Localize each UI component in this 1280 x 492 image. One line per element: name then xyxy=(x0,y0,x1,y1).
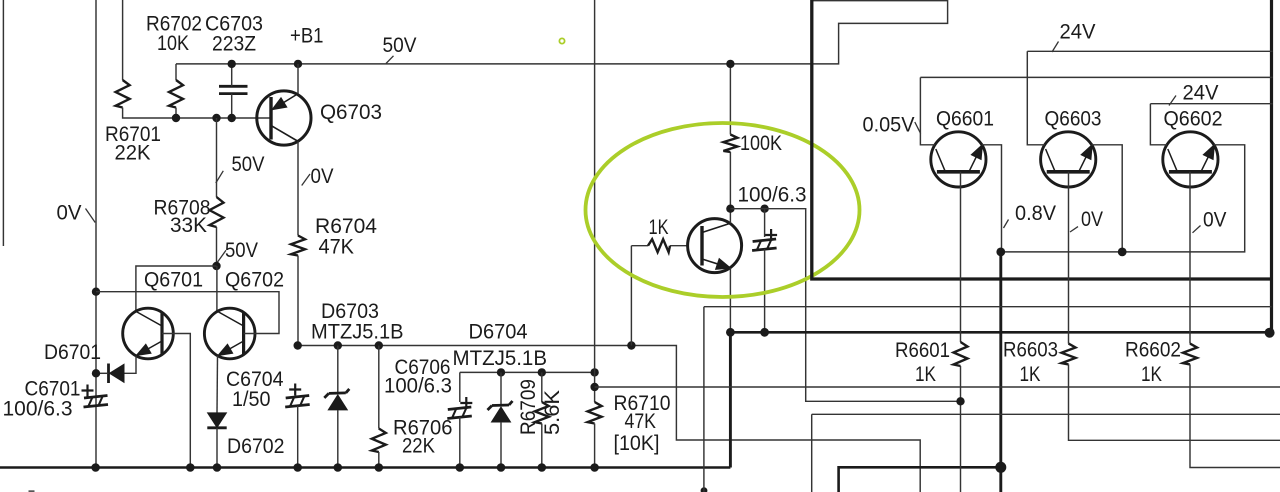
svg-text:R6602: R6602 xyxy=(1125,338,1181,362)
wire: Q6601 emitter down xyxy=(982,145,1002,252)
small green dot xyxy=(559,38,564,43)
wire: Q6701 emitter to D6701 xyxy=(124,356,137,374)
wire: C6704 to bottom bus xyxy=(297,406,299,468)
wire: collector node to R6601 bottom xyxy=(730,209,960,402)
wire: R6710 bottom lead xyxy=(594,424,596,468)
wire: thick emitter rail y=332 xyxy=(730,331,1269,334)
svg-text:0V: 0V xyxy=(311,164,335,188)
wire: R6701 top lead from top edge xyxy=(122,0,124,80)
wire: R6602 out to right edge xyxy=(1190,364,1280,467)
junction xyxy=(627,341,635,349)
wire: R6709 top lead xyxy=(541,372,543,402)
svg-text:0V: 0V xyxy=(1203,208,1227,232)
wire: D6701 cathode to rail xyxy=(96,372,109,374)
wire: Q emitter down to thick rail xyxy=(729,268,731,332)
svg-text:47K: 47K xyxy=(625,409,657,433)
svg-text:0.8V: 0.8V xyxy=(1015,201,1057,225)
wire: +B1 50V rail with staircase to top edge xyxy=(176,1,948,64)
wire: Q6603 base lead xyxy=(1068,172,1070,344)
wire: left input rail x=96 (0V net) xyxy=(95,0,97,468)
junction xyxy=(538,368,546,376)
svg-text:22K: 22K xyxy=(402,434,436,458)
transistor Q6602 xyxy=(1163,132,1218,187)
svg-text:0V: 0V xyxy=(57,201,83,225)
wire: Q6603 collector feed xyxy=(1027,51,1045,145)
wire: cap bottom lead xyxy=(764,249,766,332)
junction xyxy=(760,328,769,337)
wire: thick bottom-right bus xyxy=(839,467,1001,492)
svg-text:22K: 22K xyxy=(115,141,152,165)
junction big dot on thick bus xyxy=(995,462,1006,473)
junction on bottom bus xyxy=(186,463,195,472)
wire: 1K left lead xyxy=(631,245,648,247)
junction on bottom bus xyxy=(293,463,302,472)
wire: C6703 bottom lead xyxy=(231,94,233,118)
wire: Q6703 emitter to +B1 rail xyxy=(297,64,299,94)
wire: Q6601 base lead xyxy=(960,172,962,342)
junction thick rail / right boundary xyxy=(1265,328,1275,338)
junction xyxy=(996,248,1005,257)
svg-text:Q6703: Q6703 xyxy=(320,100,382,124)
wire: thick right boundary xyxy=(1270,0,1273,333)
wire: R6603 out to right edge xyxy=(1069,364,1280,440)
junction xyxy=(228,60,236,68)
wire: Q6702 base from input rail xyxy=(96,292,279,334)
wire: thick vertical from emitter bus to bottom edge xyxy=(999,252,1002,492)
svg-text:Q6601: Q6601 xyxy=(936,107,994,131)
wire: vertical x=704 to bottom edge xyxy=(703,307,705,492)
wire: C6706 to bus xyxy=(459,417,461,468)
svg-text:24V: 24V xyxy=(1060,20,1097,44)
svg-text:+B1: +B1 xyxy=(290,24,324,48)
wire: thick vertical to bottom bus xyxy=(729,332,732,467)
wire: D6703 anode to bus xyxy=(337,410,339,468)
resistor R6710 47K xyxy=(588,402,602,424)
svg-text:1K: 1K xyxy=(1020,362,1042,386)
svg-text:MTZJ5.1B: MTZJ5.1B xyxy=(311,320,404,344)
transistor Q6601 xyxy=(931,132,986,187)
wire: base net of Q6703 at y=117 xyxy=(123,108,271,119)
capacitor C6706 100/6.3 xyxy=(447,397,472,419)
svg-text:1K: 1K xyxy=(915,362,937,386)
junction xyxy=(92,369,100,377)
junction xyxy=(212,262,220,270)
svg-text:MTZJ5.1B: MTZJ5.1B xyxy=(453,346,548,370)
svg-text:47K: 47K xyxy=(319,235,355,259)
wire: Q6703 collector down to R6704 xyxy=(297,142,299,236)
svg-text:50V: 50V xyxy=(225,238,259,262)
svg-text:100/6.3: 100/6.3 xyxy=(3,397,73,421)
svg-text:Q6701: Q6701 xyxy=(144,268,203,292)
junction xyxy=(92,288,100,296)
wire: R6708 bottom lead xyxy=(216,227,218,266)
resistor R6602 1K xyxy=(1183,344,1197,365)
wire: Q6601 collector feed xyxy=(920,77,935,144)
diode D6701 xyxy=(109,364,125,384)
wire: D6703 cathode lead xyxy=(337,346,339,394)
junction on bottom bus xyxy=(213,463,222,472)
junction on bottom bus xyxy=(334,463,343,472)
svg-text:0.05V: 0.05V xyxy=(863,113,916,137)
resistor R6603 1K xyxy=(1062,344,1076,365)
svg-text:5.6K: 5.6K xyxy=(540,389,564,435)
svg-text:1K: 1K xyxy=(1141,362,1163,386)
wire: R6706 top lead xyxy=(378,346,380,429)
junction xyxy=(212,114,220,122)
junction on bottom bus xyxy=(456,463,465,472)
wire: Q6602 collector feed xyxy=(1150,104,1167,145)
cropped mark at bottom edge xyxy=(29,490,35,492)
svg-text:D6701: D6701 xyxy=(44,340,101,364)
wire: R6704 to D6703 node xyxy=(297,256,299,346)
wire: collector net to Q6701 xyxy=(136,266,217,311)
svg-text:D6704: D6704 xyxy=(469,320,528,344)
junction on bottom bus xyxy=(590,463,599,472)
capacitor C6701 100/6.3 xyxy=(82,385,109,408)
svg-text:Q6603: Q6603 xyxy=(1045,107,1102,131)
wire: 1K to Q base xyxy=(670,245,688,247)
wire: 24V rail y=51 xyxy=(1027,50,1272,52)
wire: bottom 0V bus (left) xyxy=(0,466,730,469)
transistor Q6702 xyxy=(204,308,255,359)
junction xyxy=(760,205,768,213)
wire: D6704 anode to bus xyxy=(500,422,502,468)
wire: 100K bottom lead to collector xyxy=(729,152,731,223)
svg-text:1K: 1K xyxy=(649,215,669,239)
resistor R6702 10K xyxy=(169,80,183,108)
svg-text:24V: 24V xyxy=(1183,81,1220,105)
wire: long cross wire y=414 xyxy=(812,413,1280,415)
wire: Q6602 emitter and shared emitter bus y=252 xyxy=(1001,145,1245,252)
junction xyxy=(956,397,964,405)
capacitor C6704 1/50 xyxy=(285,384,310,408)
svg-text:D6702: D6702 xyxy=(227,434,285,458)
svg-text:R6601: R6601 xyxy=(895,338,950,362)
resistor 100K xyxy=(723,135,737,153)
green highlight ellipse xyxy=(586,123,860,297)
wire: Q6702 emitter to D6702 xyxy=(216,356,219,413)
svg-text:10K: 10K xyxy=(157,31,190,55)
resistor R6709 5.6K xyxy=(535,402,549,424)
junction on bottom bus xyxy=(375,463,384,472)
svg-text:100K: 100K xyxy=(740,131,783,155)
wire: C6706 top lead xyxy=(459,372,461,402)
junction xyxy=(1118,248,1127,257)
junction xyxy=(334,341,342,349)
wire: C6703 top lead xyxy=(231,64,233,86)
junction on bottom bus xyxy=(538,463,547,472)
partial junction at bottom edge xyxy=(701,487,708,492)
svg-text:R6709: R6709 xyxy=(516,379,540,435)
svg-text:223Z: 223Z xyxy=(212,32,256,56)
junction xyxy=(726,328,735,337)
transistor Q6701 xyxy=(123,308,174,359)
wire: D6704 cathode lead xyxy=(500,372,502,404)
resistor 1K xyxy=(648,239,670,252)
transistor Q6603 xyxy=(1041,132,1096,187)
junction xyxy=(726,60,734,68)
wire: R6601 to bottom edge xyxy=(960,366,962,492)
svg-text:50V: 50V xyxy=(383,33,418,57)
svg-text:[10K]: [10K] xyxy=(614,431,660,455)
svg-text:Q6602: Q6602 xyxy=(1164,107,1223,131)
junction xyxy=(590,368,598,376)
left border line xyxy=(2,0,4,246)
wire: cap top lead xyxy=(764,209,766,237)
junction xyxy=(497,368,505,376)
junction xyxy=(375,341,383,349)
wire: R6706 bottom lead xyxy=(378,452,380,468)
capacitor 100/6.3 (in green circle) xyxy=(752,229,777,251)
resistor R6708 33K xyxy=(210,197,224,227)
zener diode D6703 MTZJ5.1B xyxy=(324,389,349,410)
wire: R6702 top lead xyxy=(175,64,177,80)
wire: down to Q6702 collector xyxy=(216,266,218,311)
wire: D6704 net horizontal xyxy=(460,371,595,373)
resistor R6704 47K xyxy=(291,236,305,256)
resistor R6701 22K xyxy=(116,80,130,108)
transistor Q (muting, in green circle) xyxy=(688,219,742,273)
svg-text:1/50: 1/50 xyxy=(232,387,271,411)
wire: upper 24V distribution at y=77 xyxy=(920,76,1272,78)
wire: 1K branch down to D6703 net xyxy=(630,246,632,346)
wire: long cross wire y=307 xyxy=(704,306,1272,308)
wire: R6708 top lead xyxy=(216,118,218,197)
capacitor C6703 223Z xyxy=(219,86,248,93)
wire: D6703/D6704 net running right and down xyxy=(298,346,921,492)
junction on bottom bus xyxy=(91,463,100,472)
wire: Q6602 base lead xyxy=(1189,172,1191,344)
junction xyxy=(294,60,302,68)
junction xyxy=(172,114,180,122)
wire: R6709 bottom lead xyxy=(541,424,543,468)
wire: 100K top lead from 50V rail xyxy=(729,64,731,135)
wire: 24V rail y=103 xyxy=(1150,103,1272,105)
wire: vertical x=812 to bottom edge xyxy=(811,414,813,492)
junction on bottom bus xyxy=(497,463,506,472)
resistor R6706 22K xyxy=(372,429,386,453)
svg-text:Q6702: Q6702 xyxy=(225,268,284,292)
svg-text:R6603: R6603 xyxy=(1003,338,1058,362)
svg-text:100/6.3: 100/6.3 xyxy=(738,183,807,207)
zener diode D6704 MTZJ5.1B xyxy=(488,401,513,422)
diode D6702 xyxy=(207,413,226,428)
svg-text:100/6.3: 100/6.3 xyxy=(384,374,452,398)
junction xyxy=(590,383,598,391)
junction xyxy=(228,114,236,122)
junction xyxy=(726,205,734,213)
wire: thick block boundary (vertical+horizontal) xyxy=(812,0,1273,279)
wire: Q6603 emitter down xyxy=(1092,145,1123,252)
wire: D6702 to bottom bus xyxy=(216,428,218,468)
svg-text:0V: 0V xyxy=(1081,207,1104,231)
wire: Q6701 base to bottom bus xyxy=(162,334,190,468)
transistor Q6703 (PNP) xyxy=(257,91,311,145)
wire: long vertical from top edge through R6710 node xyxy=(594,0,596,402)
resistor R6601 1K xyxy=(954,342,968,366)
svg-text:33K: 33K xyxy=(170,213,208,237)
junction xyxy=(294,341,302,349)
wire: R6702 bottom lead xyxy=(175,108,177,119)
wire: long cross wire y=387 from R6710 node xyxy=(595,386,1280,388)
svg-text:50V: 50V xyxy=(232,152,266,176)
